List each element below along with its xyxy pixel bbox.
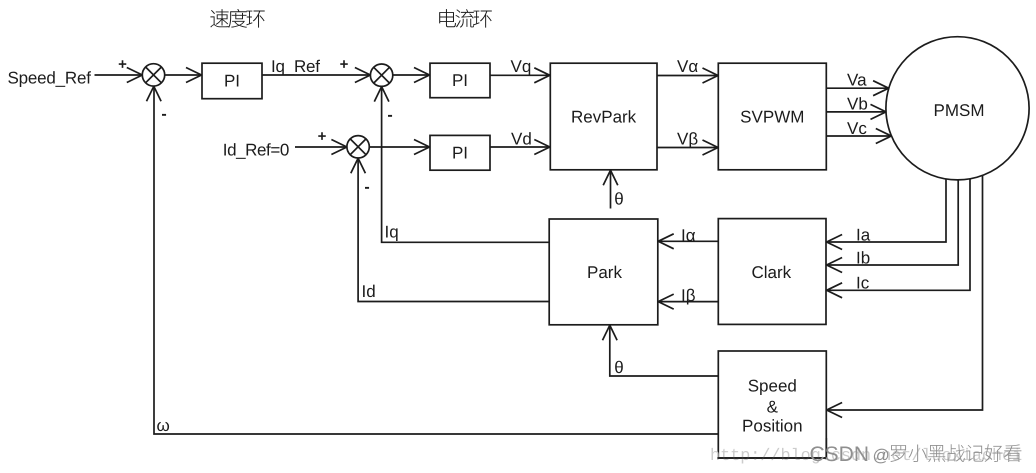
wire SVPWM to PMSM (Vb) <box>826 111 886 113</box>
wire PI3 to RevPark (Vd) <box>490 146 550 148</box>
svg-text:-: - <box>364 179 369 196</box>
svg-text:θ: θ <box>614 358 623 377</box>
wire RevPark to SVPWM (Vbeta) <box>657 147 718 149</box>
svg-text:Clark: Clark <box>751 263 791 282</box>
wire PI1 to sum2 (Iq_Ref) <box>262 74 370 76</box>
block PI2 <box>430 63 490 97</box>
svg-text:Ia: Ia <box>856 225 871 244</box>
wire PMSM to Clark (Ic) <box>827 178 970 290</box>
block PI1 <box>202 63 262 98</box>
svg-text:CSDN: CSDN <box>810 443 870 466</box>
svg-text:Vd: Vd <box>511 130 532 149</box>
Speed & Position box bottom edge over watermark <box>717 457 827 459</box>
svg-text:PMSM: PMSM <box>934 101 985 120</box>
svg-text:ω: ω <box>157 416 170 435</box>
block Speed & Position <box>718 351 826 458</box>
title current loop (dian liu huan) <box>439 9 456 27</box>
wire Speed&Position omega feedback to sum1 <box>154 86 718 434</box>
summing junction S2 <box>370 64 392 86</box>
svg-text:PI: PI <box>452 144 468 163</box>
summing junction S1 <box>142 64 164 86</box>
svg-text:Vb: Vb <box>847 95 868 114</box>
block Clark <box>718 219 826 325</box>
svg-text:Iq: Iq <box>385 223 399 242</box>
svg-text:Vq: Vq <box>511 57 532 76</box>
motor PMSM <box>886 37 1029 180</box>
svg-text:+: + <box>118 56 127 73</box>
wire PMSM to Speed&Position feedback <box>827 175 983 410</box>
watermark username luoxiaoheizhanji haokan <box>890 445 906 462</box>
svg-text:Iq_Ref: Iq_Ref <box>271 57 320 76</box>
svg-text:SVPWM: SVPWM <box>740 107 804 126</box>
svg-text:Iα: Iα <box>681 226 696 245</box>
svg-text:Position: Position <box>742 416 802 435</box>
svg-text:+: + <box>318 128 327 145</box>
svg-text:Id_Ref=0: Id_Ref=0 <box>223 141 289 160</box>
wire RevPark to SVPWM (Valpha) <box>657 75 718 77</box>
svg-text:&: & <box>767 398 779 417</box>
wire Clark to Park (Ibeta) <box>658 301 718 303</box>
wire Park Id feedback to sum3 <box>358 158 549 301</box>
svg-text:Vc: Vc <box>847 119 867 138</box>
wire PI2 to RevPark (Vq) <box>490 74 550 76</box>
svg-text:Speed: Speed <box>748 377 797 396</box>
wire Id_Ref to sum3 <box>295 146 347 148</box>
wire PMSM to Clark (Ia) <box>827 179 946 242</box>
svg-text:PI: PI <box>452 71 468 90</box>
block PI3 <box>430 135 490 170</box>
svg-text:Vβ: Vβ <box>677 130 698 149</box>
summing junction S3 <box>347 136 369 158</box>
wire SVPWM to PMSM (Vc) <box>826 135 891 137</box>
svg-text:Id: Id <box>362 282 376 301</box>
wire Speed&Position theta to Park <box>610 325 719 376</box>
wire Speed_Ref to sum1 <box>95 74 143 76</box>
svg-text:Speed_Ref: Speed_Ref <box>8 69 92 88</box>
svg-text:-: - <box>387 107 392 124</box>
svg-text:Ib: Ib <box>856 248 870 267</box>
svg-text:Iβ: Iβ <box>681 286 696 305</box>
svg-text:-: - <box>161 106 166 123</box>
svg-text:Va: Va <box>847 71 867 90</box>
wire sum2 to PI2 <box>393 74 430 76</box>
wire Clark to Park (Ialpha) <box>658 240 718 242</box>
wire sum1 to PI1 <box>165 74 202 76</box>
svg-text:Ic: Ic <box>856 273 870 292</box>
wire sum3 to PI3 <box>369 146 429 148</box>
block RevPark <box>550 63 657 170</box>
wire PMSM to Clark (Ib) <box>827 180 959 265</box>
block SVPWM <box>718 63 826 170</box>
svg-text:+: + <box>340 56 349 73</box>
wire Park Iq feedback to sum2 <box>382 87 550 243</box>
wire theta stub into RevPark <box>610 170 612 208</box>
svg-text:@: @ <box>873 446 890 465</box>
svg-text:RevPark: RevPark <box>571 107 637 126</box>
svg-text:Park: Park <box>587 263 622 282</box>
svg-text:Vα: Vα <box>677 57 698 76</box>
wire SVPWM to PMSM (Va) <box>826 87 888 89</box>
block Park <box>549 219 658 325</box>
svg-text:PI: PI <box>224 71 240 90</box>
title speed loop (su du huan) <box>210 9 229 27</box>
svg-text:θ: θ <box>614 190 623 209</box>
